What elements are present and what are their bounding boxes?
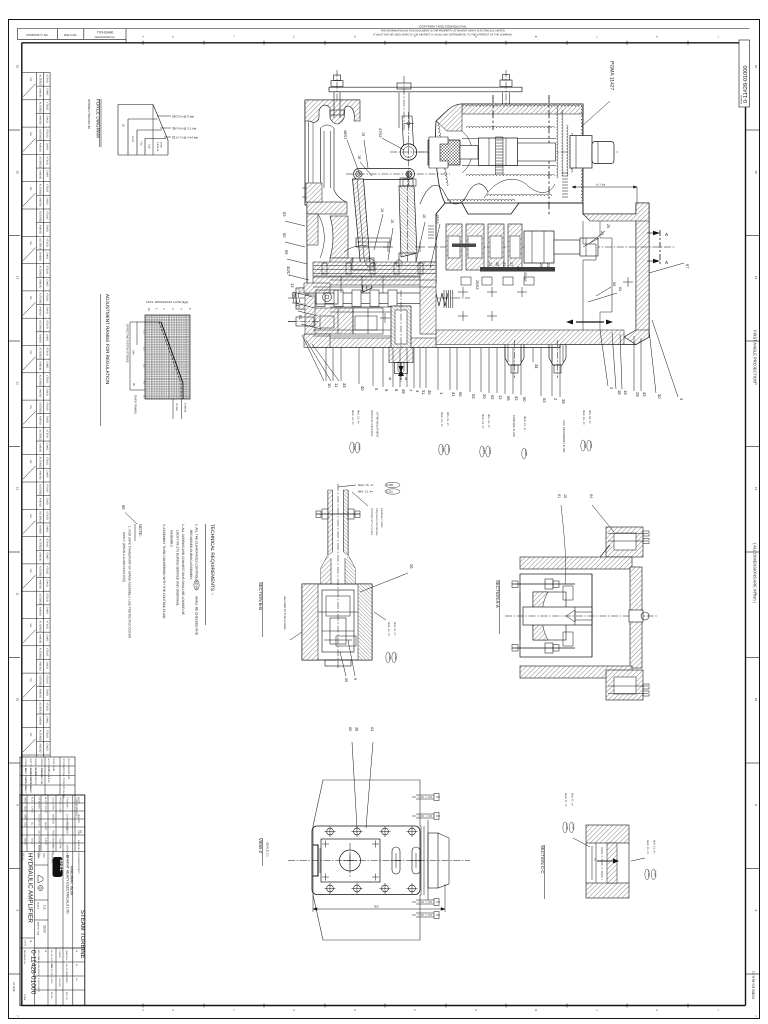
svg-text:K: K (656, 1009, 658, 1012)
svg-text:0.215: 0.215 (386, 490, 393, 494)
a-a right wall (630, 567, 642, 668)
svg-text:VT&VD: VT&VD (45, 539, 48, 548)
view z inner corner marks (322, 843, 329, 845)
a-a top flange (606, 527, 643, 557)
svg-text:0.035: 0.035 (589, 442, 592, 449)
svg-text:( ALL DIMENSIONS ARE IN mm ): ( ALL DIMENSIONS ARE IN mm ) (753, 543, 758, 604)
svg-text:44: 44 (516, 266, 520, 270)
vertical link rod (399, 186, 417, 257)
main assembly view (282, 61, 690, 459)
svg-text:R.B.SINGH: R.B.SINGH (66, 822, 69, 834)
pilot valve centerline (288, 297, 470, 299)
svg-text:ALTERED: ALTERED (39, 593, 42, 605)
svg-text:CHKD: CHKD (45, 498, 48, 505)
svg-text:ALTERED: ALTERED (39, 238, 42, 250)
lower body main block (313, 203, 649, 348)
svg-text:27: 27 (509, 262, 513, 266)
svg-text:CODE: CODE (23, 994, 26, 1001)
dark gallery stripe (480, 267, 555, 272)
shaft step block (570, 136, 592, 169)
svg-text:V: V (142, 1009, 144, 1012)
svg-text:9: 9 (353, 678, 357, 680)
svg-text:AMEND: AMEND (39, 361, 42, 370)
svg-text:16: 16 (380, 208, 384, 212)
svg-text:ALTERED: ALTERED (39, 184, 42, 196)
svg-text:CHKD: CHKD (45, 279, 48, 286)
right stud on beam (500, 80, 512, 87)
scallop texture upper body (463, 105, 582, 107)
view z (258, 727, 470, 940)
pin left (356, 171, 362, 177)
housing top band with cast ears (305, 100, 360, 124)
svg-text:AMDT No.148: AMDT No.148 (29, 778, 32, 794)
svg-text:48/57: 48/57 (343, 130, 347, 140)
svg-text:AMEND: AMEND (39, 416, 42, 425)
svg-text:AMEND: AMEND (39, 552, 42, 561)
view z centerlines (288, 860, 470, 862)
svg-text:SH.1 ALTERED: SH.1 ALTERED (34, 768, 37, 785)
svg-text:ADJUSTMENT RANGE FOR REGULA: ADJUSTMENT RANGE FOR REGULATION (105, 294, 110, 384)
svg-text:VT&VD: VT&VD (45, 211, 48, 220)
svg-text:CHKD: CHKD (45, 470, 48, 477)
svg-text:1:1: 1:1 (43, 905, 47, 910)
scale/weight cells (35, 864, 49, 866)
svg-text:ALTERED: ALTERED (39, 539, 42, 551)
svg-text:31: 31 (421, 390, 426, 395)
body bottom band (436, 330, 624, 345)
svg-text:EFFECTIVE PISTON STROKE: EFFECTIVE PISTON STROKE (126, 324, 130, 363)
b-b inner valve (322, 590, 354, 652)
svg-text:CHKD: CHKD (45, 607, 48, 614)
svg-text:66: 66 (458, 392, 463, 397)
svg-text:VT&VD: VT&VD (45, 593, 48, 602)
svg-text:VT&VD: VT&VD (45, 484, 48, 493)
gland scallop columns (557, 106, 559, 178)
svg-text:VT&VD: VT&VD (45, 293, 48, 302)
svg-text:AMEND: AMEND (39, 143, 42, 152)
svg-text:ASSLY. [DRGN 2-11428-01100 (00: ASSLY. [DRGN 2-11428-01100 (00)] (122, 532, 126, 582)
svg-text:DIN A No.: DIN A No. (64, 33, 77, 37)
svg-text:20/63: 20/63 (475, 280, 479, 290)
centerline A (428, 246, 676, 248)
svg-text:0.060: 0.060 (583, 442, 586, 449)
svg-text:COPYRIGHT AND CONFIDENTIAL: COPYRIGHT AND CONFIDENTIAL (419, 25, 467, 29)
svg-text:26: 26 (409, 564, 414, 569)
svg-text:ALTERED: ALTERED (39, 621, 42, 633)
svg-text:3.1 bar: 3.1 bar (175, 403, 178, 411)
svg-text:16: 16 (16, 65, 20, 69)
svg-text:0.030: 0.030 (388, 654, 391, 661)
svg-text:ALTERED: ALTERED (39, 211, 42, 223)
svg-text:CHKD: CHKD (45, 443, 48, 450)
view z top leaders (352, 742, 357, 828)
svg-text:VT&VD: VT&VD (45, 184, 48, 193)
svg-text:AMEND: AMEND (39, 197, 42, 206)
upper spool shaft (460, 146, 478, 160)
leader 69 (125, 513, 137, 525)
svg-text:MIN. TL. #=: MIN. TL. #= (571, 793, 574, 807)
b-b main block (302, 584, 372, 660)
svg-text:15: 15 (16, 170, 20, 174)
svg-text:MAX. CL. #=: MAX. CL. #= (358, 483, 374, 487)
svg-text:AMEND: AMEND (39, 252, 42, 261)
svg-text:14: 14 (754, 276, 758, 280)
svg-text:NA: NA (29, 78, 32, 82)
svg-text:REQUIRED CENTERING: REQUIRED CENTERING (375, 508, 378, 536)
svg-text:10: 10 (563, 494, 567, 498)
svg-text:AMEND: AMEND (39, 716, 42, 725)
top beam (329, 86, 522, 88)
svg-text:AMEND: AMEND (39, 170, 42, 179)
svg-text:68: 68 (506, 396, 511, 401)
svg-text:0.230: 0.230 (441, 446, 444, 453)
svg-text:REV. 00: REV. 00 (65, 992, 68, 1000)
svg-text:REDRAWING No.: REDRAWING No. (95, 36, 116, 39)
svg-text:ALTERED: ALTERED (39, 266, 42, 278)
svg-text:CHKD: CHKD (45, 634, 48, 641)
svg-text:VT&VD: VT&VD (45, 675, 48, 684)
svg-text:IT MUST NOT BE USED DIRECTLY O: IT MUST NOT BE USED DIRECTLY OR INDIRECT… (373, 34, 512, 37)
first angle symbol (38, 875, 43, 883)
svg-text:43: 43 (642, 392, 647, 397)
svg-text:R: R (354, 35, 356, 38)
a-a bottom flange (606, 670, 643, 700)
svg-text:AMEND: AMEND (39, 334, 42, 343)
link bar between pins (354, 169, 415, 180)
svg-text:30: 30 (657, 394, 662, 399)
svg-text:16.4.07: 16.4.07 (44, 822, 47, 831)
svg-text:T.P.ANGST.131: T.P.ANGST.131 (40, 768, 43, 785)
bhel logo (53, 857, 63, 877)
svg-text:SECURED BY PUNCH MARK: SECURED BY PUNCH MARK (283, 596, 286, 630)
svg-text:ALTERED: ALTERED (39, 320, 42, 332)
right wall hatch (636, 221, 649, 330)
svg-text:NA: NA (29, 405, 32, 409)
svg-text:ALTERED: ALTERED (39, 511, 42, 523)
mid stud (398, 93, 400, 129)
svg-text:13: 13 (16, 381, 20, 385)
hanging cup 1 (505, 345, 524, 366)
view z left bracket (313, 845, 318, 876)
svg-text:AMEND: AMEND (39, 580, 42, 589)
view z right flange (423, 826, 425, 895)
svg-text:65: 65 (344, 678, 348, 682)
diagonal feedback lever (353, 179, 373, 292)
svg-text:AMEND: AMEND (39, 88, 42, 97)
svg-text:VT&VD: VT&VD (45, 75, 48, 84)
svg-text:AMEND: AMEND (39, 607, 42, 616)
left wall lower hatch (307, 214, 318, 245)
graph lower leaders (172, 399, 174, 419)
svg-text:19: 19 (623, 390, 628, 395)
svg-text:CHKD: CHKD (45, 743, 48, 750)
b-b stem (327, 490, 329, 555)
svg-text:22: 22 (488, 262, 492, 266)
svg-text:SCALE 1:1: SCALE 1:1 (266, 842, 270, 857)
lower servo valve stack (446, 224, 462, 270)
pilot housing blocks (313, 262, 436, 276)
svg-text:0.040: 0.040 (394, 654, 397, 661)
svg-text:CHKD: CHKD (45, 88, 48, 95)
svg-text:ALTD S.No.4,7: ALTD S.No.4,7 (24, 778, 27, 795)
left stud through band (333, 92, 335, 119)
svg-text:14: 14 (16, 276, 20, 280)
svg-text:K: K (656, 35, 658, 38)
left adjuster assembly (304, 283, 330, 293)
svg-text:B.N.K: B.N.K (31, 838, 34, 845)
graph curve (161, 322, 183, 383)
svg-text:36: 36 (427, 390, 432, 395)
tower caps (461, 277, 471, 285)
svg-text:STD: STD (24, 822, 27, 827)
svg-text:MIN. CL. #=: MIN. CL. #= (357, 410, 360, 424)
view z corner bolts (327, 828, 334, 835)
svg-text:1. FOR SAFE TRANSPORT OF SPAR: 1. FOR SAFE TRANSPORT OF SPARE ASSEMBLY,… (128, 526, 132, 639)
svg-text:0.025: 0.025 (571, 824, 574, 831)
c-c top block (586, 825, 629, 843)
left fan leaders (302, 335, 324, 381)
right cavity internal steps (583, 221, 596, 330)
coupling block (428, 140, 460, 165)
svg-text:0.050: 0.050 (357, 444, 360, 451)
svg-text:AMEND: AMEND (39, 634, 42, 643)
svg-text:N/mm: N/mm (160, 142, 163, 148)
spring detail (428, 226, 434, 238)
svg-text:SIZE: SIZE (65, 978, 68, 983)
vertical control valve (391, 306, 411, 348)
svg-text:AGREED: AGREED (52, 814, 55, 824)
svg-text:0.345: 0.345 (488, 448, 491, 455)
svg-text:21: 21 (502, 262, 506, 266)
svg-text:CHKD: CHKD (59, 806, 62, 813)
svg-text:ITEM 14,58: ITEM 14,58 (52, 759, 55, 772)
svg-text:T.P.SINGH: T.P.SINGH (66, 797, 69, 809)
svg-text:CHKD: CHKD (45, 525, 48, 532)
svg-text:VT&VD: VT&VD (45, 730, 48, 739)
svg-text:AMEND: AMEND (39, 443, 42, 452)
svg-text:PT. No.6,9,13: PT. No.6,9,13 (47, 768, 50, 783)
servo piston (524, 231, 554, 263)
svg-text:AUX. SECONDARY FLUID: AUX. SECONDARY FLUID (562, 420, 565, 453)
svg-text:NA: NA (29, 569, 32, 573)
svg-text:60: 60 (348, 727, 352, 731)
view z inner rect (321, 839, 380, 882)
svg-text:CHKD: CHKD (45, 661, 48, 668)
svg-text:64: 64 (589, 494, 593, 498)
svg-text:52: 52 (490, 395, 495, 400)
svg-text:ALTD: ALTD (31, 797, 34, 803)
svg-text:41: 41 (451, 392, 456, 397)
svg-text:MAX. DL. #=: MAX. DL. #= (582, 410, 585, 425)
svg-text:26: 26 (539, 263, 543, 267)
svg-text:TYPE OF PRODUCT: TYPE OF PRODUCT (75, 797, 78, 818)
svg-text:PROVIDE STYLE PLATE: PROVIDE STYLE PLATE (370, 508, 373, 535)
svg-text:FORM DS 46 E 01: FORM DS 46 E 01 (752, 971, 756, 999)
svg-text:S: S (293, 35, 295, 38)
svg-text:10: 10 (16, 698, 20, 702)
svg-text:NA: NA (29, 678, 32, 682)
svg-text:THE INFORMATION ON THIS DOCUME: THE INFORMATION ON THIS DOCUMENT IS THE … (381, 30, 506, 33)
svg-text:MAX. CL. #=: MAX. CL. #= (387, 622, 390, 637)
svg-text:NAME: NAME (24, 797, 27, 804)
svg-text:ALTERED: ALTERED (39, 156, 42, 168)
svg-text:15: 15 (390, 219, 394, 223)
svg-text:0-11428-01000: 0-11428-01000 (743, 65, 749, 103)
svg-text:MAX. CL. #=: MAX. CL. #= (523, 416, 526, 431)
svg-text:34A: 34A (132, 350, 135, 355)
svg-text:MAX. CL. #=: MAX. CL. #= (481, 414, 484, 429)
svg-text:HYDRAULIC AMPLIFIER: HYDRAULIC AMPLIFIER (27, 853, 34, 923)
svg-text:47/52: 47/52 (378, 128, 382, 138)
pilot left end spring (292, 293, 300, 303)
svg-text:0.060: 0.060 (447, 446, 450, 453)
svg-text:VT&VD: VT&VD (45, 621, 48, 630)
svg-text:10: 10 (147, 308, 151, 312)
svg-text:61: 61 (557, 494, 561, 498)
svg-text:NO-17-ANGST-131: NO-17-ANGST-131 (67, 759, 70, 780)
svg-text:BHARAT HEAVY ELECTRICALS LTD: BHARAT HEAVY ELECTRICALS LTD (66, 855, 70, 914)
hanging cup 2 (549, 345, 566, 366)
svg-text:NA: NA (29, 241, 32, 245)
c-c dim (591, 846, 593, 880)
svg-text:DRAWING No.: DRAWING No. (23, 950, 26, 965)
svg-text:ALTERED: ALTERED (39, 566, 42, 578)
svg-text:38/74 N @ 3.1 bar: 38/74 N @ 3.1 bar (172, 126, 197, 130)
section a-a view (495, 494, 658, 700)
svg-text:AMEND: AMEND (39, 115, 42, 124)
svg-text:CHKD: CHKD (45, 552, 48, 559)
svg-text:53: 53 (471, 394, 476, 399)
svg-text:R.K.GARG: R.K.GARG (38, 814, 41, 826)
right slant leaders (600, 330, 608, 386)
svg-text:HARDWAR, INDIA: HARDWAR, INDIA (70, 866, 74, 896)
svg-text:AMEND: AMEND (39, 225, 42, 234)
svg-text:CHKD: CHKD (45, 334, 48, 341)
svg-text:PREPD: PREPD (59, 797, 62, 806)
svg-text:S.NOTE: S.NOTE (58, 950, 61, 958)
svg-text:14: 14 (295, 302, 300, 307)
svg-text:19: 19 (361, 132, 365, 136)
svg-text:N: N (475, 1009, 477, 1012)
svg-text:FIRST ANGLE PROJECTION: FIRST ANGLE PROJECTION (753, 330, 758, 383)
svg-text:VT&VD: VT&VD (45, 320, 48, 329)
svg-text:MADE: MADE (24, 838, 27, 845)
bellows column (320, 128, 322, 190)
svg-text:4.44 bar: 4.44 bar (184, 403, 187, 412)
svg-text:1.0: 1.0 (143, 330, 146, 334)
intermediate linkage details (352, 258, 374, 270)
svg-text:V: V (142, 35, 144, 38)
svg-text:VT&VD: VT&VD (45, 102, 48, 111)
svg-text:PROPERTY No.: PROPERTY No. (27, 33, 49, 37)
svg-text:MIN. CL. #=: MIN. CL. #= (358, 490, 373, 494)
svg-text:3.0: 3.0 (143, 364, 146, 368)
c-c center column (607, 843, 617, 883)
svg-text:M: M (535, 1009, 537, 1012)
svg-text:ASSEMBLY.: ASSEMBLY. (170, 530, 174, 548)
svg-text:NA: NA (29, 514, 32, 518)
svg-text:9.4.07: 9.4.07 (44, 806, 47, 813)
svg-text:TECHNICAL REQUIREMENTS :-: TECHNICAL REQUIREMENTS :- (209, 524, 215, 596)
servo rod right (554, 240, 580, 254)
svg-text:33.00: 33.00 (43, 925, 47, 933)
svg-text:0.230: 0.230 (386, 483, 393, 487)
section c-c view (540, 793, 656, 899)
svg-text:0.105: 0.105 (653, 871, 656, 878)
view z dimension (313, 908, 445, 910)
bore lines (462, 138, 556, 140)
svg-text:10.02: 10.02 (131, 136, 134, 143)
pilot spool (306, 293, 421, 304)
svg-text:CHKD: CHKD (45, 197, 48, 204)
svg-text:0.160: 0.160 (647, 871, 650, 878)
svg-text:12: 12 (16, 487, 20, 491)
view z slots (392, 847, 400, 874)
housing left boss (306, 183, 322, 202)
svg-text:NOTCH BY ITEM NO.8: NOTCH BY ITEM NO.8 (370, 410, 373, 437)
svg-text:56: 56 (612, 282, 616, 286)
svg-text:ALTERED: ALTERED (39, 293, 42, 305)
svg-text:49: 49 (401, 389, 406, 394)
spring ladder stacks (496, 136, 504, 138)
svg-text:LOCKTITE-270 DURING SERVICE AN: LOCKTITE-270 DURING SERVICE AND OVERHAUL (175, 530, 179, 606)
svg-text:MIN. CL. #=: MIN. CL. #= (487, 414, 490, 428)
svg-text:R: R (354, 1009, 356, 1012)
svg-text:VT&VD: VT&VD (45, 429, 48, 438)
svg-text:45/46: 45/46 (523, 272, 527, 282)
svg-text:AMEND: AMEND (39, 689, 42, 698)
svg-text:64: 64 (618, 287, 622, 291)
section b-b view (258, 482, 414, 682)
svg-text:NA: NA (29, 132, 32, 136)
section plane B (400, 362, 402, 381)
svg-text:DT.W.AMDT.151: DT.W.AMDT.151 (62, 759, 65, 777)
svg-text:ALTERED: ALTERED (39, 675, 42, 687)
zone ticks left border (8, 129, 20, 131)
upper servo body (435, 104, 583, 214)
svg-text:WEIGHT (kg): WEIGHT (kg) (37, 922, 40, 935)
svg-text:3. ASSEMBLY TO BE CONSERVED W: 3. ASSEMBLY TO BE CONSERVED WITH THE CON… (162, 524, 166, 619)
svg-text:58: 58 (292, 294, 297, 299)
svg-text:61: 61 (298, 315, 303, 320)
left housing outline (305, 99, 360, 101)
svg-text:P: P (414, 1009, 416, 1012)
graph dimension lines (129, 322, 131, 390)
svg-text:AMEND: AMEND (39, 388, 42, 397)
svg-text:STEAM TURBINE: STEAM TURBINE (79, 910, 86, 959)
svg-text:7.52: 7.52 (140, 141, 143, 146)
svg-text:11: 11 (334, 383, 339, 388)
svg-text:ALTERED: ALTERED (39, 129, 42, 141)
svg-text:DRG.ITEM No.: DRG.ITEM No. (37, 950, 40, 964)
svg-text:12: 12 (498, 395, 503, 400)
lower-left cast mass (330, 216, 348, 258)
top header band (17, 28, 749, 30)
svg-text:VT&VD: VT&VD (45, 348, 48, 357)
svg-text:CHKD: CHKD (45, 416, 48, 423)
left stud on beam (331, 81, 343, 87)
svg-text:ASSEMBLY DVAJ: ASSEMBLY DVAJ (380, 508, 383, 528)
svg-text:69: 69 (121, 505, 126, 510)
svg-text:NA: NA (29, 460, 32, 464)
svg-text:NA: NA (29, 296, 32, 300)
a-a shaft (523, 607, 592, 625)
svg-text:TITLE :: TITLE : (22, 853, 25, 861)
svg-text:NA: NA (29, 351, 32, 355)
svg-text:VT&VD: VT&VD (45, 266, 48, 275)
misc centers (380, 317, 390, 319)
svg-text:VT&VD: VT&VD (45, 511, 48, 520)
